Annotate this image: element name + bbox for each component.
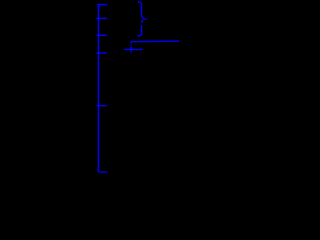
wire bottom branch [99, 171, 107, 173]
wire branch 4 [97, 52, 107, 54]
brace lower diagonal [142, 20, 144, 23]
wire drop solid [130, 42, 132, 44]
wire top branch [97, 4, 107, 6]
node D junction dot [97, 105, 99, 107]
node C junction dot [97, 52, 99, 54]
brace upper arm [138, 2, 144, 19]
brace cusp stub [144, 18, 148, 20]
wire branch 5 [97, 105, 107, 107]
wire branch 2 [97, 17, 107, 19]
node A junction dot [97, 17, 99, 19]
node B junction dot [97, 34, 99, 36]
wire branch 3 [97, 34, 107, 36]
wire long horizontal [131, 40, 179, 43]
brace lower arm [137, 25, 141, 36]
wire cross horizontal [124, 48, 143, 50]
wire vertical spine [97, 4, 100, 172]
wire drop dash [130, 45, 132, 46]
wire top stub [99, 5, 101, 7]
wire cross vertical [130, 47, 132, 53]
